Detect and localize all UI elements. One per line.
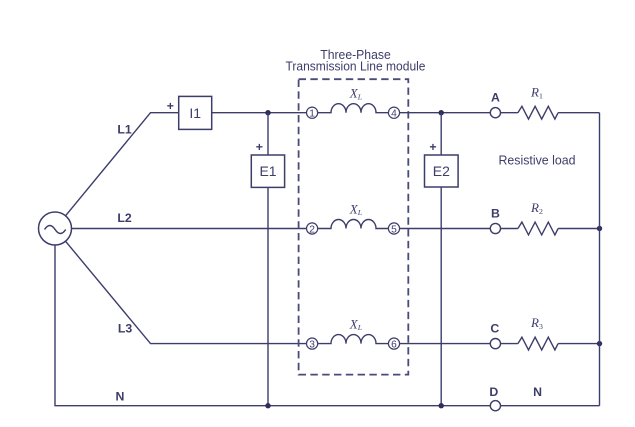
wire L1 diagonal from source to I1: [66, 113, 179, 216]
voltmeter E2: [425, 155, 459, 187]
svg-text:L2: L2: [117, 211, 132, 225]
svg-text:E1: E1: [259, 163, 276, 179]
resistor R3: [518, 337, 558, 350]
junction dot L1/E2: [439, 110, 444, 115]
node 1: [307, 107, 318, 120]
svg-text:N: N: [116, 390, 125, 404]
svg-text:R2: R2: [530, 200, 543, 216]
inductor XL row2: [318, 220, 389, 229]
junction dot R2/rail: [597, 226, 602, 231]
node 3: [307, 338, 318, 351]
svg-text:4: 4: [391, 109, 397, 120]
junction dot E2/N: [439, 403, 444, 408]
svg-text:5: 5: [391, 224, 397, 235]
svg-text:XL: XL: [349, 201, 362, 217]
wire A to R1: [500, 112, 518, 114]
svg-text:Resistive load: Resistive load: [499, 154, 576, 168]
wire L2 from source to node 2: [72, 228, 307, 230]
wire E2 lead down: [440, 113, 442, 155]
svg-text:XL: XL: [349, 86, 362, 102]
wire node6 to node C: [400, 343, 491, 345]
dashed module box: [299, 79, 409, 374]
svg-text:L3: L3: [118, 322, 133, 336]
node 6: [388, 338, 399, 351]
wire E1 rail down to N: [267, 187, 269, 405]
right rail: [599, 113, 601, 406]
svg-text:2: 2: [309, 224, 315, 235]
svg-text:+: +: [256, 140, 263, 154]
svg-text:1: 1: [309, 109, 315, 120]
node 4: [388, 107, 399, 120]
svg-text:L1: L1: [117, 123, 132, 137]
svg-text:R1: R1: [530, 85, 543, 101]
svg-text:I1: I1: [189, 105, 201, 121]
node 5: [388, 223, 399, 236]
junction dot R3/rail: [597, 341, 602, 346]
svg-text:+: +: [167, 99, 174, 113]
junction dot E1/N: [265, 403, 270, 408]
wire L3 diagonal from source: [66, 241, 307, 343]
node B: [490, 223, 500, 233]
wire C to R3: [500, 343, 518, 345]
node C: [490, 339, 500, 349]
svg-text:A: A: [491, 91, 500, 105]
svg-text:Transmission Line module: Transmission Line module: [286, 60, 426, 74]
AC source: [39, 212, 72, 245]
ammeter I1: [179, 96, 212, 129]
svg-text:N: N: [533, 385, 542, 399]
node D: [490, 401, 500, 411]
svg-text:XL: XL: [349, 316, 362, 332]
svg-text:+: +: [429, 140, 436, 154]
node A: [490, 108, 500, 118]
svg-text:6: 6: [391, 340, 397, 351]
wire N from source bottom to node D: [55, 245, 491, 406]
wire R1 to right rail: [558, 112, 599, 114]
wire B to R2: [500, 228, 518, 230]
wire E1 lead down: [267, 113, 269, 155]
resistor R1: [518, 106, 558, 119]
wire node5 to node B: [400, 228, 491, 230]
wire I1 to node 1: [212, 112, 307, 114]
svg-text:C: C: [490, 322, 499, 336]
svg-text:B: B: [491, 207, 500, 221]
wire E2 rail down to N: [440, 187, 442, 406]
resistor R2: [518, 222, 558, 235]
node 2: [307, 223, 318, 236]
svg-text:3: 3: [309, 340, 315, 351]
wire N from node D to right rail: [500, 405, 600, 407]
voltmeter E1: [251, 155, 284, 187]
svg-text:R3: R3: [530, 315, 543, 331]
svg-text:D: D: [489, 385, 498, 399]
wire R3 to right rail: [558, 343, 599, 345]
wire node4 to node A: [400, 112, 491, 114]
wire R2 to right rail: [558, 228, 599, 230]
junction dot L1/E1: [265, 110, 270, 115]
inductor XL row3: [318, 335, 389, 344]
inductor XL row1: [318, 104, 389, 113]
svg-text:E2: E2: [433, 163, 450, 179]
